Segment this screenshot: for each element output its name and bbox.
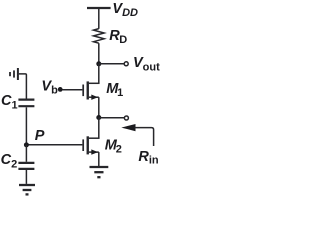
ground under M2: bar2	[94, 171, 103, 173]
transistor M1 source arrow	[91, 95, 98, 100]
wire node B to M2 drain	[98, 118, 100, 139]
wire node B to input terminal	[99, 117, 125, 119]
Rin arrow head	[121, 124, 135, 131]
wire node A to M1 drain	[98, 64, 100, 84]
wire C1 to node P	[25, 107, 27, 145]
sideways ground top-left: bar1 (small)	[9, 72, 11, 76]
Vout open-circle terminal	[124, 62, 128, 66]
transistor M2 channel bar	[87, 136, 89, 154]
wire sideways ground to C1 top plate	[19, 74, 27, 99]
transistor M1 gate bar	[82, 85, 84, 97]
transistor M1 drain lead	[89, 82, 100, 84]
transistor M2 gate bar	[82, 139, 84, 151]
transistor M2 source lead	[89, 151, 99, 153]
wire node P to M2 gate	[26, 144, 82, 146]
ground under C2: bar1	[19, 184, 35, 186]
capacitor C2 top plate	[18, 162, 34, 164]
wire VDD bar to resistor RD	[98, 8, 100, 29]
wire resistor to node A	[98, 43, 100, 64]
capacitor C1 top plate	[18, 98, 34, 100]
wire C2 to ground	[25, 170, 27, 184]
capacitor C2 bottom plate	[18, 168, 34, 170]
transistor M2 source arrow	[91, 149, 98, 154]
transistor M1 source lead	[89, 96, 99, 98]
wire Vb dot to M1 gate	[60, 89, 82, 91]
wire M1 source to node B	[98, 97, 100, 117]
ground under C2: bar2	[23, 189, 32, 191]
capacitor C1 bottom plate	[18, 105, 34, 107]
svg-text:P: P	[35, 128, 45, 144]
resistor RD zigzag	[94, 29, 105, 44]
node A junction dot (Vout node)	[96, 61, 101, 66]
wire M2 source to ground	[98, 152, 100, 166]
wire node A to Vout terminal	[99, 63, 124, 65]
transistor M1 channel bar	[87, 81, 89, 99]
ground under M2: bar1	[90, 166, 109, 168]
node Vb dot	[58, 87, 63, 92]
ground under M2: bar3	[97, 176, 100, 178]
transistor M2 drain lead	[89, 137, 100, 139]
Rin arrow bent wire	[135, 128, 154, 146]
node B junction dot (M1 source / M2 drain)	[96, 115, 101, 120]
sideways ground top-left: bar2 (medium)	[13, 70, 15, 77]
ground under C2: bar3	[26, 193, 29, 195]
wire node P to C2	[25, 145, 27, 162]
VDD supply rail bar	[87, 7, 111, 9]
sideways ground top-left: bar3 (large)	[17, 68, 19, 80]
node P junction dot	[24, 142, 29, 147]
input open-circle terminal	[124, 116, 128, 120]
